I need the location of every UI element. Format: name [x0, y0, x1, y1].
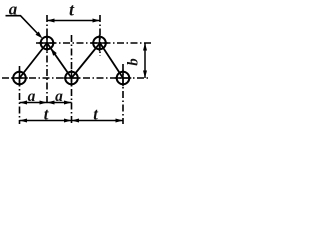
hole O4 bottom-middle circle — [63, 70, 80, 87]
wire diagonal O1-O3 — [20, 43, 48, 78]
wire diagonal O1-O4 — [47, 43, 72, 78]
svg-text:t: t — [93, 105, 98, 124]
svg-text:a: a — [9, 0, 18, 19]
dimension a: arrowhead left at x=19.5 — [20, 101, 28, 105]
dimension a left: line — [20, 102, 72, 104]
dimension t bottom: line — [20, 120, 124, 122]
wire top row horizontal centerline — [36, 42, 152, 44]
dimension t bottom: arrowhead right-pointing at x=71.5 — [64, 119, 72, 123]
dimension b: bottom arrowhead — [143, 71, 147, 79]
dimension t bottom: arrowhead left at x=19.5 — [20, 119, 28, 123]
dimension a: arrowhead right at x=71.5 — [64, 101, 72, 105]
wire bottom row horizontal centerline — [2, 77, 150, 79]
wire vertical centerline through hole O2 — [99, 15, 101, 56]
dimension a: arrowhead right-pointing at x=47 — [40, 101, 48, 105]
svg-text:a: a — [55, 88, 63, 105]
wire vertical centerline through hole O3 — [19, 66, 21, 124]
wire vertical centerline through hole O1 — [46, 15, 48, 105]
dimension a: arrowhead left-pointing at x=47 — [47, 101, 55, 105]
leader arrowhead at NW edge of hole O1 — [36, 32, 43, 39]
wire diagonal O2-O4 — [72, 43, 101, 78]
svg-text:a: a — [28, 88, 36, 105]
leader line for label a (top-left) — [6, 16, 39, 35]
wire diagonal O2-O5 — [100, 43, 123, 78]
hole O2 top-right circle — [91, 35, 108, 52]
wire vertical centerline through hole O4 — [71, 35, 73, 124]
dimension t bottom: arrowhead left-pointing at x=71.5 — [72, 119, 80, 123]
dimension t top: line — [47, 20, 100, 22]
dimension t top: left arrowhead — [47, 19, 55, 23]
dimension b: line — [144, 43, 146, 78]
arrowhead at SE edge of hole O1 on diagonal O1-O4 — [51, 48, 57, 55]
dimension t bottom: arrowhead right at x=123 — [116, 119, 124, 123]
dimension t top: right arrowhead — [93, 19, 101, 23]
svg-text:t: t — [44, 105, 49, 124]
hole O1 top-left circle — [39, 35, 56, 52]
dimension b: top arrowhead — [143, 43, 147, 51]
svg-text:b: b — [126, 58, 142, 66]
wire vertical centerline through hole O5 — [122, 64, 124, 124]
hole O5 bottom-right circle — [115, 70, 132, 87]
hole O3 bottom-left circle — [11, 70, 28, 87]
